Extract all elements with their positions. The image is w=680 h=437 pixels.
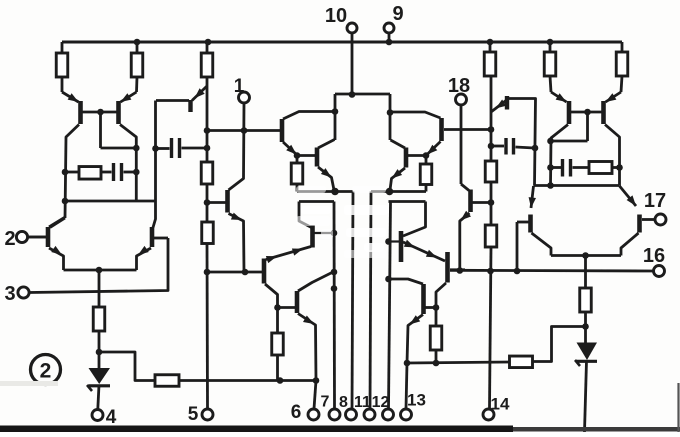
svg-text:2: 2 bbox=[40, 360, 52, 383]
svg-text:17: 17 bbox=[644, 190, 666, 212]
svg-text:16: 16 bbox=[643, 245, 665, 267]
svg-text:2: 2 bbox=[4, 228, 15, 250]
svg-text:10: 10 bbox=[325, 5, 347, 27]
svg-text:12: 12 bbox=[372, 394, 390, 411]
svg-text:1: 1 bbox=[234, 76, 245, 97]
svg-text:18: 18 bbox=[448, 75, 470, 97]
svg-text:8: 8 bbox=[339, 394, 348, 411]
svg-text:5: 5 bbox=[188, 404, 199, 425]
svg-text:6: 6 bbox=[291, 402, 302, 423]
svg-text:3: 3 bbox=[4, 283, 15, 305]
svg-text:14: 14 bbox=[491, 395, 510, 414]
svg-text:9: 9 bbox=[392, 3, 403, 25]
svg-text:4: 4 bbox=[106, 407, 117, 428]
svg-text:11: 11 bbox=[354, 394, 371, 411]
svg-text:13: 13 bbox=[407, 391, 426, 410]
svg-text:7: 7 bbox=[321, 394, 330, 411]
